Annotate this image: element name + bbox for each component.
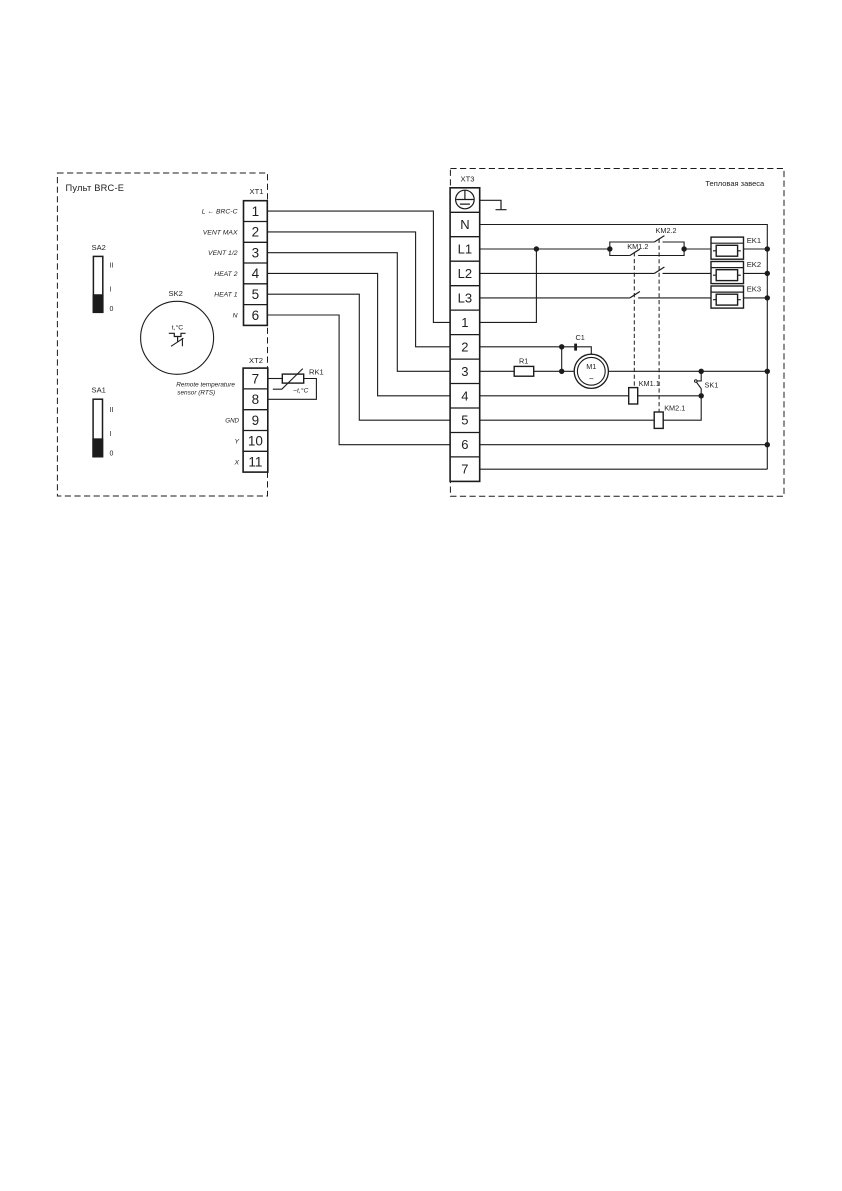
svg-text:3: 3 <box>252 246 260 261</box>
junction row3 <box>559 369 564 374</box>
N bus (N row, right vertical, down to row 7) <box>480 225 768 470</box>
resistor R1 <box>514 357 534 377</box>
svg-text:10: 10 <box>248 434 263 449</box>
svg-text:Y: Y <box>234 439 239 446</box>
svg-text:0: 0 <box>110 306 114 313</box>
wire row2 to row3 riser <box>561 347 563 372</box>
wire KM2.1 riser to SK1 junction <box>663 396 701 420</box>
svg-text:0: 0 <box>110 450 114 457</box>
svg-text:L2: L2 <box>458 266 472 281</box>
svg-text:2: 2 <box>252 225 260 240</box>
svg-text:KM1.2: KM1.2 <box>627 242 648 251</box>
junction L1 / terminal 1 <box>534 246 539 251</box>
svg-text:t,°C: t,°C <box>172 324 183 332</box>
svg-text:3: 3 <box>461 364 468 379</box>
junction EK2 / N bus <box>765 271 770 276</box>
coil KM2.1 <box>654 404 685 429</box>
svg-text:L3: L3 <box>458 290 472 305</box>
terminal block XT2 <box>243 356 268 472</box>
wire XT1:6 to XT3:6 <box>267 315 450 445</box>
svg-text:SA1: SA1 <box>92 386 106 395</box>
wire XT3:3 to R1 <box>480 370 515 372</box>
junction dot right of contact pair <box>681 246 686 251</box>
svg-text:VENT 1/2: VENT 1/2 <box>208 250 238 257</box>
svg-text:R1: R1 <box>519 357 528 366</box>
wire XT2:7 to RK1 <box>268 378 283 380</box>
svg-text:II: II <box>110 407 114 414</box>
svg-text:Remote temperature: Remote temperature <box>176 381 235 388</box>
wire XT3:6 to N bus <box>480 444 768 446</box>
svg-text:HEAT 2: HEAT 2 <box>214 271 238 278</box>
svg-text:9: 9 <box>252 413 260 428</box>
junction row3 / N bus <box>765 369 770 374</box>
wire XT1:1 to XT3:1 <box>267 211 450 322</box>
wire L3 row <box>480 297 711 299</box>
wire XT3:1 riser to L1 <box>480 249 537 322</box>
svg-text:I: I <box>110 287 112 294</box>
terminal block XT1 <box>244 187 268 325</box>
svg-text:7: 7 <box>252 371 260 386</box>
heater EK3 <box>711 285 761 308</box>
junction M1 row / SK1 top <box>699 369 704 374</box>
thermistor RK1 <box>273 368 324 395</box>
mechanical link KM2 (dashed) <box>658 239 660 412</box>
wire EK1 to N bus <box>744 248 768 250</box>
svg-text:KM2.1: KM2.1 <box>664 404 685 413</box>
svg-text:5: 5 <box>461 413 468 428</box>
svg-text:7: 7 <box>461 462 468 477</box>
svg-text:EK3: EK3 <box>747 285 761 294</box>
switch SK1 <box>695 371 719 396</box>
wire XT3:7 to N bus <box>480 468 768 470</box>
junction row2 <box>559 344 564 349</box>
wire XT1:4 to XT3:4 <box>267 273 450 395</box>
wire M1 to SK1/bus <box>608 370 767 372</box>
svg-text:XT3: XT3 <box>461 175 475 184</box>
PE terminal symbol <box>456 190 475 209</box>
svg-text:EK2: EK2 <box>747 260 761 269</box>
wire KM1.1 to SK1 junction <box>638 395 702 397</box>
XT1 pin function labels <box>202 209 238 320</box>
wire contacts to EK1 <box>684 248 711 250</box>
wire L2 row <box>480 272 711 274</box>
svg-text:SK1: SK1 <box>705 381 719 390</box>
svg-text:8: 8 <box>252 392 260 407</box>
svg-text:6: 6 <box>461 437 468 452</box>
svg-text:4: 4 <box>252 266 260 281</box>
svg-text:X: X <box>233 460 239 467</box>
svg-text:XT1: XT1 <box>250 187 264 196</box>
contact KM1.2 (L1 pole, lower branch) <box>610 242 684 255</box>
switch SA1 <box>92 386 114 458</box>
wire L1 row to contacts <box>480 248 610 250</box>
svg-text:N: N <box>460 217 469 232</box>
wire EK3 to N bus <box>744 297 768 299</box>
svg-text:11: 11 <box>248 455 262 470</box>
svg-text:II: II <box>110 262 114 269</box>
svg-text:~: ~ <box>589 375 594 384</box>
XT2 pin function labels <box>225 418 239 467</box>
svg-text:−t,°C: −t,°C <box>293 386 308 394</box>
svg-text:RK1: RK1 <box>309 368 324 377</box>
junction dot left of contact pair <box>607 246 612 251</box>
junction row6 / N bus <box>765 442 770 447</box>
svg-text:VENT MAX: VENT MAX <box>203 229 238 236</box>
svg-text:GND: GND <box>225 418 239 425</box>
svg-text:M1: M1 <box>586 362 596 371</box>
terminal block XT3 <box>450 175 480 482</box>
mechanical link KM1 (dashed) <box>633 252 635 387</box>
svg-text:5: 5 <box>252 287 260 302</box>
junction SK1 bottom <box>699 393 704 398</box>
switch SA2 <box>92 243 114 313</box>
wire XT3:5 to KM2.1 <box>480 419 655 421</box>
wire EK2 to N bus <box>744 272 768 274</box>
junction EK1 / N bus <box>765 246 770 251</box>
heater EK1 <box>711 236 761 259</box>
contact KM2.2 (L2 pole) <box>654 267 664 273</box>
svg-text:sensor (RTS): sensor (RTS) <box>177 390 215 397</box>
contact KM2.2 (L1 pole, upper branch) <box>610 226 684 249</box>
capacitor C1 <box>574 333 585 351</box>
ground <box>480 200 507 209</box>
motor M1 <box>574 354 608 388</box>
wire XT1:5 to XT3:5 <box>267 294 450 420</box>
svg-text:C1: C1 <box>576 333 585 342</box>
thermostat SK2 <box>141 289 214 374</box>
svg-text:N: N <box>233 313 238 320</box>
svg-text:2: 2 <box>461 339 468 354</box>
svg-text:1: 1 <box>461 315 468 330</box>
wire RK1 to XT2:8 <box>268 379 317 400</box>
wire XT3:2 row <box>480 347 592 355</box>
svg-text:SK2: SK2 <box>169 289 183 298</box>
enclosure Пульт BRC-E (dashed box) <box>57 173 267 496</box>
svg-text:I: I <box>110 431 112 438</box>
svg-text:HEAT 1: HEAT 1 <box>214 292 238 299</box>
svg-text:L ← BRC-C: L ← BRC-C <box>202 209 238 216</box>
svg-text:XT2: XT2 <box>249 356 263 365</box>
coil KM1.1 <box>629 379 660 404</box>
enclosure Тепловая завеса (dashed box) <box>450 169 784 497</box>
svg-text:1: 1 <box>252 204 260 219</box>
svg-text:SA2: SA2 <box>92 243 106 252</box>
svg-text:KM1.1: KM1.1 <box>639 379 660 388</box>
heater EK2 <box>711 260 761 283</box>
svg-text:L1: L1 <box>458 242 472 257</box>
wire XT1:2 to XT3:2 <box>267 232 450 347</box>
svg-text:Тепловая завеса: Тепловая завеса <box>705 179 765 188</box>
wire XT3:4 to KM1.1 <box>480 395 629 397</box>
svg-text:Пульт BRC-E: Пульт BRC-E <box>66 183 125 193</box>
svg-text:EK1: EK1 <box>747 236 761 245</box>
svg-text:4: 4 <box>461 388 468 403</box>
svg-text:KM2.2: KM2.2 <box>656 226 677 235</box>
wire XT1:3 to XT3:3 <box>267 253 450 372</box>
junction EK3 / N bus <box>765 295 770 300</box>
contact KM1.2 (L3 pole) <box>630 292 640 298</box>
svg-text:6: 6 <box>252 308 260 323</box>
wire R1 to M1 <box>534 370 575 372</box>
